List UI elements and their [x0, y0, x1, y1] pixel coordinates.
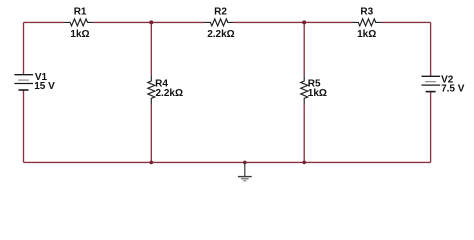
svg-text:1kΩ: 1kΩ [357, 29, 376, 40]
svg-text:2.2kΩ: 2.2kΩ [207, 29, 234, 40]
wire top segment from R2 to R3 [234, 21, 353, 23]
junction bottom node R4 [150, 161, 154, 165]
junction bottom node ground [243, 161, 247, 165]
resistor R2 [205, 19, 234, 26]
battery V2 [422, 76, 441, 91]
wire right segment V2 top [430, 22, 432, 76]
battery V1 [14, 75, 33, 90]
resistor R4 [148, 75, 155, 104]
svg-text:R2: R2 [214, 6, 227, 17]
svg-text:1kΩ: 1kΩ [308, 88, 327, 99]
wire top segment from R3 to V2 [382, 21, 431, 23]
resistor R1 [64, 19, 93, 26]
resistor R3 [353, 19, 382, 26]
ground [238, 162, 252, 180]
svg-text:R3: R3 [360, 6, 373, 17]
wire middle branch R4 bottom [150, 104, 152, 162]
svg-text:7.5 V: 7.5 V [441, 84, 465, 95]
wire middle branch R5 bottom [303, 104, 305, 162]
wire left segment V1 bottom [23, 90, 25, 162]
wire left segment V1 top [23, 22, 25, 74]
junction top node R5 [302, 20, 306, 24]
junction top node R4 [149, 20, 153, 24]
junction bottom node R5 [302, 161, 306, 165]
wire bottom segment [24, 161, 431, 163]
wire right segment V2 bottom [430, 92, 432, 163]
resistor R5 [301, 75, 308, 104]
wire top segment from R1 to R2 [93, 21, 204, 23]
wire top segment from V1 to R1 [24, 21, 65, 23]
wire middle branch R4 top [150, 22, 152, 75]
svg-text:15 V: 15 V [34, 81, 55, 92]
svg-text:1kΩ: 1kΩ [70, 29, 89, 40]
svg-text:2.2kΩ: 2.2kΩ [156, 88, 183, 99]
svg-text:R1: R1 [74, 6, 87, 17]
wire middle branch R5 top [303, 22, 305, 75]
